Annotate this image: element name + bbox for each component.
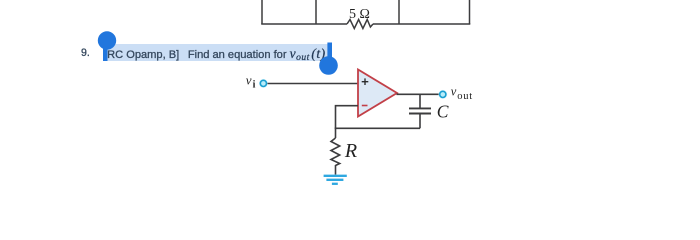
top circuit: third vertical wire <box>398 0 400 24</box>
svg-text:out: out <box>457 91 473 102</box>
op-amp U1 triangle <box>358 70 397 117</box>
svg-text:R: R <box>344 140 357 162</box>
svg-text:5 Ω: 5 Ω <box>349 7 370 22</box>
svg-text:i: i <box>253 80 256 91</box>
selection end handle <box>319 43 338 75</box>
svg-text:v: v <box>451 85 457 99</box>
svg-text:C: C <box>437 101 449 121</box>
wire capacitor lower stub <box>419 114 421 129</box>
top circuit: second vertical wire <box>315 0 317 24</box>
wire capacitor upper stub <box>419 94 421 108</box>
question text: [RC Opamp, B] Find an equation for vout(t) <box>104 46 326 63</box>
capacitor C plates <box>409 108 431 113</box>
question number 9. <box>81 47 90 59</box>
op-amp minus sign <box>362 105 368 107</box>
node vi terminal <box>259 79 268 88</box>
selection start handle <box>98 31 116 61</box>
wire op-amp minus input feedback (left) <box>336 106 359 129</box>
node vout terminal <box>438 90 447 99</box>
svg-text:v: v <box>246 73 252 88</box>
wire bottom feedback rail <box>335 127 420 129</box>
top circuit: bottom wire right segment <box>373 23 470 25</box>
wire op-amp output <box>397 93 440 95</box>
top circuit: bottom wire left segment <box>261 23 347 25</box>
ground <box>324 176 347 184</box>
op-amp plus sign <box>362 78 369 85</box>
top circuit: right vertical wire <box>469 0 471 24</box>
resistor R zigzag <box>331 128 340 175</box>
wire vi to op-amp + input <box>268 83 359 85</box>
resistor 5-ohm zigzag <box>347 20 373 29</box>
text selection highlight <box>104 44 332 61</box>
top circuit: left vertical wire <box>261 0 263 24</box>
